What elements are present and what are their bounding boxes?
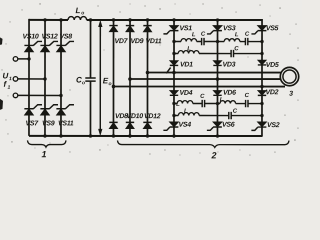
capacitor C row2 C13 [231,50,233,57]
svg-text:VD6: VD6 [223,90,236,97]
wire inverter leg B [216,20,218,136]
mark slash on phase wire [166,68,170,74]
brace section 2 [117,140,289,147]
diode VD8 [109,122,117,128]
svg-text:VS7: VS7 [25,120,39,127]
wire inverter leg A [173,20,175,136]
junction dots commutation upper [172,40,263,55]
thyristor VS9 [40,105,58,115]
wire inverter leg C [261,19,263,136]
wire motor phase 1 [148,71,282,73]
svg-text:VS8: VS8 [60,34,73,41]
scan noise speckles [1,3,298,155]
thyristor VS5 [251,26,266,34]
svg-text:VD12: VD12 [144,113,161,120]
thyristor VS7 [24,105,42,115]
thyristor VS1 [163,26,178,34]
svg-text:L: L [176,102,180,108]
diode VD3 [213,61,221,66]
junction dots rectifier [27,18,62,137]
svg-text:VS12: VS12 [42,34,58,41]
terminal input phase 2 [13,77,18,82]
svg-text:VD3: VD3 [223,62,236,69]
svg-text:VS11: VS11 [58,120,74,127]
thyristor VS2 [251,122,266,130]
svg-text:VS2: VS2 [267,122,280,129]
svg-text:L: L [220,97,224,103]
wire bridge leg C [146,20,148,136]
wire filter capacitor leg [89,20,91,136]
wire input phase 2 [18,78,45,80]
svg-text:o: o [108,81,111,87]
svg-text:L: L [192,32,196,38]
inductor L low row1 C45 [177,101,193,104]
svg-text:VD10: VD10 [126,113,143,120]
wire rectifier leg C [60,20,62,136]
svg-text:VS3: VS3 [223,25,236,32]
capacitor C row1 C12 [202,38,204,45]
wire bridge leg A [112,20,114,136]
thyristor VS12 [40,41,58,51]
thyristor VS11 [56,105,74,115]
svg-text:L: L [235,32,239,38]
svg-text:VD1: VD1 [180,62,193,69]
svg-text:VD5: VD5 [266,62,279,69]
wire bridge leg B [129,20,131,136]
wire input phase 1 [18,58,29,60]
diode VD1 [170,61,178,66]
terminal input phase 1 [13,57,18,62]
diode VD2 [258,91,266,96]
svg-text:VD7: VD7 [115,38,129,45]
capacitor C low row1 C45 [202,100,204,107]
thyristor VS6 [207,122,222,130]
junction dots Co leg [89,18,92,21]
capacitor C row1 C23 [245,38,247,45]
inductor Lo [68,17,87,20]
svg-text:3: 3 [289,91,293,98]
wire input phase 3 [18,94,61,96]
thyristor VS4 [163,122,178,130]
diode VD9 [126,26,134,32]
svg-text:1: 1 [41,149,46,159]
svg-text:C: C [201,32,206,38]
diode VD10 [126,122,134,128]
wire commutation low row1 branch C45 [174,103,218,105]
svg-text:C: C [234,46,239,52]
svg-text:VS5: VS5 [266,25,279,32]
wire motor phase 3 [113,85,284,87]
svg-text:C: C [245,32,250,38]
wire commutation row1 branch C12 [174,41,218,43]
inductor L low row1 C56 [220,101,236,104]
svg-text:o: o [81,10,84,16]
inductor L row1 C23 [224,39,240,42]
wire commutation row1 branch C23 [218,41,262,43]
svg-text:VD2: VD2 [265,89,278,96]
wire commutation low row2 branch C46 [174,115,262,117]
svg-text:VD4: VD4 [179,90,192,97]
svg-text:VS1: VS1 [180,25,193,32]
diode VD7 [109,26,117,32]
node Eo voltage arrow [98,21,102,136]
diode VD6 [213,91,221,96]
node phase taps [112,71,264,89]
svg-text:C: C [233,109,238,115]
svg-text:VS6: VS6 [222,122,235,129]
svg-text:1: 1 [9,76,12,82]
junction dots commutation lower [172,102,263,117]
svg-text:L: L [187,46,191,52]
capacitor Co [85,78,95,81]
wire rectifier leg A [28,19,30,136]
terminal input phase 3 [13,93,18,98]
svg-text:2: 2 [210,150,216,160]
inductor L low row2 C46 [178,113,199,116]
motor M [280,67,298,85]
diode VD5 [258,60,266,65]
svg-text:1: 1 [7,85,10,91]
svg-text:o: o [82,80,85,86]
wire commutation low row1 branch C56 [217,103,261,105]
thyristor VS3 [207,26,222,34]
diode VD11 [143,26,151,32]
svg-text:C: C [245,93,250,99]
svg-text:L: L [76,6,81,15]
thyristor VS8 [56,41,74,51]
svg-text:VS9: VS9 [42,120,55,127]
junction dots inverter buses [172,18,219,137]
capacitor C low row1 C56 [246,100,248,107]
brace section 1 [27,140,66,147]
svg-text:VD11: VD11 [146,38,162,45]
capacitor C low row2 C46 [229,112,231,119]
wire bottom DC bus [29,135,263,137]
wire commutation row2 branch C13 [174,53,262,55]
diode VD12 [143,122,151,128]
wire top DC bus [29,19,263,21]
svg-text:VD9: VD9 [131,38,144,45]
wire rectifier leg B [44,20,46,136]
inductor L row2 C13 [178,51,199,54]
svg-text:VS4: VS4 [178,122,191,129]
inductor L row1 C12 [181,39,197,42]
diode VD4 [170,91,178,96]
svg-text:C: C [200,94,205,100]
thyristor VS10 [24,41,42,51]
wire motor phase 2 [130,78,281,80]
svg-text:L: L [184,109,188,115]
svg-text:VS10: VS10 [23,34,39,41]
junction dots bridge [112,18,149,137]
scan artifacts left edge [0,37,3,45]
